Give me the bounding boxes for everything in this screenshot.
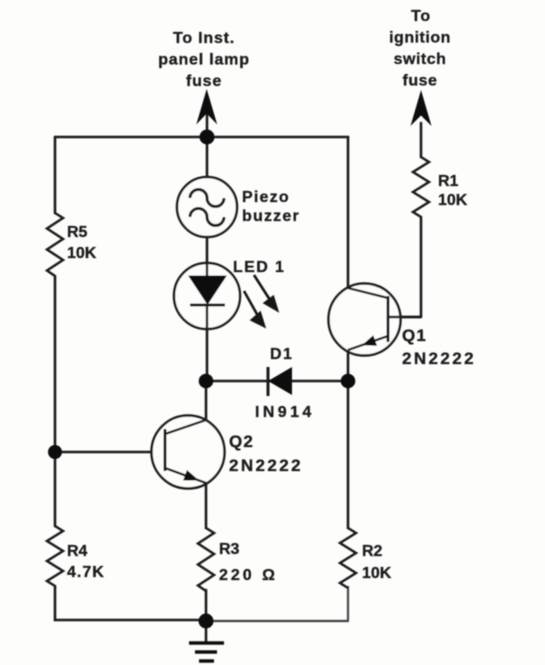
wire: R1 to Q1 base (corner)	[389, 217, 421, 317]
svg-text:4.7K: 4.7K	[67, 564, 105, 581]
resistor R4	[47, 526, 63, 586]
svg-text:10K: 10K	[362, 565, 392, 582]
wire: Q2 base wire	[55, 451, 165, 454]
piezo buzzer BZ1	[177, 177, 237, 237]
svg-text:panel lamp: panel lamp	[158, 52, 250, 69]
wire: R3 to bottom bus	[205, 590, 208, 620]
svg-text:Q1: Q1	[402, 326, 427, 345]
svg-text:R1: R1	[438, 173, 459, 190]
resistor R2	[340, 528, 356, 588]
wire: right rail top to Q1 collector	[347, 137, 350, 288]
wire: D1 horizontal node A to node B	[206, 380, 348, 383]
wire: Q1 emitter to R2	[347, 350, 350, 528]
svg-text:2N2222: 2N2222	[402, 349, 476, 368]
wire: center column fuse to buzzer	[206, 100, 209, 178]
LED LED1	[174, 263, 240, 329]
wire: bottom ground bus right	[206, 620, 348, 622]
transistor Q1	[329, 284, 422, 356]
svg-text:Piezo: Piezo	[242, 189, 290, 206]
svg-text:fuse: fuse	[186, 73, 222, 90]
ground	[189, 643, 224, 661]
wire: R1 arrow lead	[420, 123, 423, 157]
svg-text:LED 1: LED 1	[233, 259, 285, 276]
arrow to ignition switch fuse	[411, 90, 432, 126]
svg-text:R2: R2	[362, 543, 383, 560]
resistor R3	[198, 528, 214, 591]
node: left rail / Q2 base junction	[48, 445, 62, 459]
wire: ground stub	[205, 620, 208, 641]
node: ground junction	[199, 614, 214, 629]
svg-text:10K: 10K	[67, 245, 97, 262]
svg-text:R5: R5	[67, 224, 88, 241]
svg-text:fuse: fuse	[403, 73, 438, 90]
svg-text:10K: 10K	[438, 192, 468, 209]
LED light arrow 1	[254, 275, 277, 310]
svg-text:Q2: Q2	[229, 432, 254, 451]
wire: left rail upper	[54, 137, 57, 213]
svg-text:R4: R4	[67, 543, 88, 560]
wire: top horizontal bus	[55, 136, 348, 139]
svg-text:switch: switch	[394, 51, 447, 68]
svg-text:D1: D1	[270, 346, 293, 363]
diode D1	[268, 367, 292, 396]
svg-text:220 Ω: 220 Ω	[219, 567, 278, 584]
LED light arrow 2	[244, 291, 264, 326]
svg-text:ignition: ignition	[389, 30, 451, 47]
svg-text:IN914: IN914	[255, 404, 315, 421]
node: top junction	[200, 130, 215, 145]
svg-text:To Inst.: To Inst.	[173, 30, 235, 47]
resistor R5	[47, 213, 63, 276]
svg-text:2N2222: 2N2222	[229, 456, 303, 475]
wire: Q2 emitter to R3	[205, 484, 208, 528]
wire: left rail lower (R4 to bottom)	[54, 586, 57, 620]
resistor R1	[413, 157, 429, 217]
arrow to inst panel lamp fuse	[196, 89, 217, 125]
wire: buzzer to LED and through to node A	[206, 237, 209, 381]
wire: node A to Q2 collector	[205, 381, 208, 420]
svg-text:To: To	[411, 8, 431, 25]
transistor Q2	[152, 416, 225, 489]
wire: R2 to bottom bus	[347, 587, 349, 621]
svg-text:buzzer: buzzer	[242, 208, 300, 225]
node A: LED / D1 / Q2 collector junction	[199, 374, 214, 389]
wire: bottom ground bus left	[55, 619, 206, 622]
svg-text:R3: R3	[219, 541, 240, 558]
wire: left rail middle (R5 to R4)	[54, 276, 57, 526]
node B: D1 / Q1 emitter / R2 junction	[341, 374, 356, 389]
